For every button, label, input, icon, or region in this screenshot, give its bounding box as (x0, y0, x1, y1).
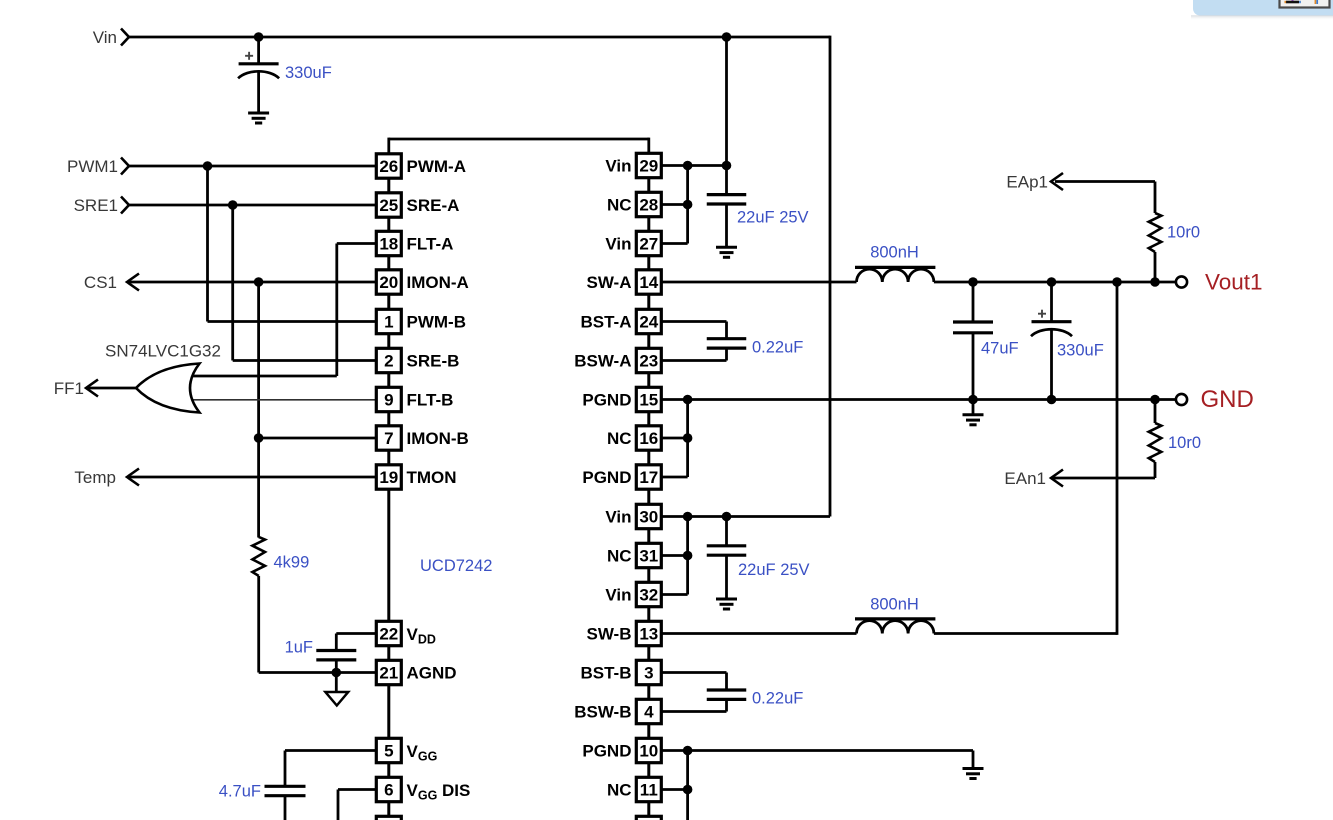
svg-text:SRE1: SRE1 (74, 196, 118, 215)
ground at PGND10 (963, 767, 984, 770)
wire right pin connector rows 9-10 (647, 529, 650, 542)
wire right pin connector rows 12-13 (647, 646, 650, 659)
svg-text:9: 9 (384, 390, 393, 409)
svg-text:VGG DIS: VGG DIS (407, 781, 471, 803)
wire VGG pin5 to 4.7uF (285, 749, 375, 752)
svg-text:30: 30 (639, 507, 658, 526)
ground below C1 (248, 112, 269, 115)
svg-text:5: 5 (384, 741, 393, 760)
port FF1 output arrow (86, 380, 98, 397)
svg-text:Vout1: Vout1 (1205, 270, 1263, 295)
svg-text:16: 16 (639, 429, 658, 448)
wire NC11 stub (662, 788, 688, 791)
pin box right 4 row14 (636, 699, 661, 723)
svg-text:PGND: PGND (582, 741, 631, 760)
svg-text:1uF: 1uF (285, 638, 313, 656)
wire BSW-A stub (662, 359, 727, 362)
wire Vin rail (129, 36, 831, 39)
pin box left 9 row6 (376, 387, 401, 411)
svg-text:23: 23 (639, 351, 658, 370)
pin box left 22 row12 (376, 621, 401, 645)
svg-text:22uF 25V: 22uF 25V (737, 208, 809, 226)
wire 330uF-1 top stub (257, 37, 260, 64)
svg-text:SW-B: SW-B (587, 624, 632, 643)
wire left pin connector rows 3-4 (387, 295, 390, 309)
wire NC31 stub (662, 554, 688, 557)
svg-text:10r0: 10r0 (1168, 434, 1201, 452)
wire 47uF bottom stub (972, 333, 975, 400)
wire LA to Vout1 (934, 281, 1176, 284)
wire PGND15 row to GND terminal (662, 398, 1176, 401)
wire AGND row (259, 671, 375, 674)
wire SRE1 branch vertical (231, 205, 234, 361)
capacitor 4.7uF at VGG (265, 785, 306, 788)
capacitor 22uF-B (707, 544, 747, 547)
svg-text:6: 6 (384, 780, 393, 799)
junction NC16 (683, 433, 693, 443)
wire 47uF ground stub (972, 400, 975, 415)
wire right pin connector rows 7-8 (647, 451, 650, 464)
svg-text:7: 7 (384, 429, 393, 448)
svg-text:SRE-A: SRE-A (407, 196, 460, 215)
wire Vin top branch drop to pin29 (725, 37, 728, 166)
pin box left partial row17 (376, 816, 401, 820)
pin box right 32 row11 (636, 582, 661, 606)
svg-text:PWM1: PWM1 (67, 157, 118, 176)
junction 47uF/GND (968, 395, 978, 405)
pin box right 27 row2 (636, 231, 661, 255)
pin box left 26 row0 (376, 154, 401, 178)
wire left pin connector rows 4-5 (387, 334, 390, 347)
svg-text:CS1: CS1 (84, 273, 117, 292)
ground below 22uF-A (716, 246, 737, 249)
pin box left 21 row13 (376, 660, 401, 684)
svg-text:32: 32 (639, 585, 658, 604)
svg-text:29: 29 (639, 156, 658, 175)
wire right pin connector rows 16-17 (647, 802, 650, 815)
wire SRE1 to pin25 (129, 204, 376, 207)
wire pins 16-17 vertical tie (686, 400, 689, 478)
svg-text:10: 10 (639, 741, 658, 760)
wire 22uF-A bottom stub to ground (725, 204, 728, 247)
wire right pin connector rows 15-16 (647, 763, 650, 776)
wire pins 31-32 vertical tie (686, 517, 689, 595)
junction 330uF-2/Vout (1047, 277, 1057, 287)
wire PGND10 row to ground (662, 749, 973, 752)
wire AGND signal-ground stub (335, 673, 338, 693)
svg-text:GND: GND (1201, 386, 1254, 413)
port Temp output arrow (127, 469, 139, 486)
capacitor C 330uF-2 polarized output (1032, 320, 1072, 323)
signal ground triangle below AGND (325, 692, 348, 706)
wire SW-B riser to Vout1 (1116, 282, 1119, 635)
junction PGND10 (683, 746, 693, 756)
wire left pin connector rows 1-2 (387, 218, 390, 231)
svg-text:FLT-A: FLT-A (407, 234, 454, 253)
junction pin29/cap (722, 161, 732, 171)
port Vin input chevron (121, 29, 129, 46)
svg-text:NC: NC (607, 546, 632, 565)
wire OR gate input 2 to FLT-B pin9 (thin) (190, 399, 375, 401)
UI button icon (1286, 1, 1299, 4)
wire BST-B stub (662, 671, 727, 674)
wire left pin connector rows 2-3 (387, 256, 390, 269)
svg-text:PGND: PGND (582, 468, 631, 487)
wire EAn1 row (1053, 477, 1155, 480)
svg-text:2: 2 (384, 351, 393, 370)
resistor 4k99 (252, 537, 265, 576)
svg-text:14: 14 (639, 273, 658, 292)
pin box right 17 row8 (636, 465, 661, 489)
wire SW-B to inductor LB (662, 632, 857, 635)
wire right pin connector rows 0-1 (647, 178, 650, 191)
junction Vin30 tie (683, 512, 693, 522)
wire R2 bottom stub (1154, 462, 1157, 478)
svg-text:28: 28 (639, 195, 658, 214)
wire left pin connector rows 12-13 (387, 646, 390, 659)
inductor LB 800nH phase B (857, 621, 934, 634)
junction CS1/IMON-A (254, 277, 264, 287)
wire right pin connector rows 11-12 (647, 607, 650, 620)
port SRE1 input chevron (121, 197, 129, 214)
wire top rail stub pin26 (387, 138, 390, 153)
wire Temp to pin19 TMON (127, 476, 375, 479)
capacitor 22uF-A (707, 193, 747, 196)
wire PGND17 stub (662, 476, 688, 479)
wire right pin connector rows 3-4 (647, 295, 650, 309)
svg-text:Vin: Vin (605, 507, 631, 526)
wire pins 10-11-12 vertical tie (686, 751, 689, 820)
wire PWM-B pin1 (208, 320, 376, 323)
svg-text:EAp1: EAp1 (1006, 173, 1048, 192)
svg-text:FF1: FF1 (54, 379, 84, 398)
wire right pin connector rows 4-5 (647, 334, 650, 347)
junction PWM1 branch (203, 161, 213, 171)
wire BST-A stub (662, 320, 727, 323)
svg-text:AGND: AGND (407, 663, 457, 682)
wire right pin connector rows 5-6 (647, 373, 650, 386)
wire 22uF-B bottom stub to ground (725, 555, 728, 599)
svg-text:25: 25 (379, 196, 398, 215)
wire top rail stub pin29 (647, 138, 650, 153)
port CS1 output arrow (127, 274, 139, 291)
wire 22uF-A top stub (725, 166, 728, 195)
capacitor 47uF output (953, 320, 993, 323)
svg-text:BSW-B: BSW-B (574, 702, 631, 721)
pin box left 20 row3 (376, 270, 401, 294)
pin box right 29 row0 (636, 153, 661, 177)
wire right pin connector rows 10-11 (647, 568, 650, 581)
svg-text:330uF: 330uF (285, 64, 332, 82)
port EAn1 output arrow (1051, 470, 1063, 487)
svg-text:Vin: Vin (605, 585, 631, 604)
svg-text:27: 27 (639, 234, 658, 253)
svg-text:BST-A: BST-A (581, 312, 632, 331)
wire 330uF-2 top stub (1050, 282, 1053, 322)
wire FF1 to OR gate output (86, 387, 140, 390)
wire VDD pin22 to 1uF (336, 632, 375, 635)
wire VGG-DIS drop (337, 790, 340, 820)
svg-text:EAn1: EAn1 (1004, 469, 1046, 488)
terminal Vout1 (1176, 276, 1187, 287)
wire right pin connector rows 13-14 (647, 685, 650, 698)
pin box right 24 row4 (636, 309, 661, 333)
wire left pin connector rows 16-17 (387, 802, 390, 815)
pin box left 19 row8 (376, 465, 401, 489)
terminal GND (1176, 394, 1187, 405)
junction PGND15 (683, 395, 693, 405)
wire left pin connector AGND to VGG (387, 685, 390, 737)
junction 47uF/Vout (968, 277, 978, 287)
wire CBST-B bottom stub (725, 699, 728, 711)
wire pins 28-27 vertical tie (686, 166, 689, 244)
junction SRE1 branch (228, 200, 238, 210)
wire NC16 stub (662, 437, 688, 440)
ground below 22uF-B (716, 598, 737, 601)
wire left pin connector rows 15-16 (387, 763, 390, 776)
wire 4.7uF top stub (284, 751, 287, 787)
wire VGG-DIS pin6 (338, 788, 375, 791)
wire CBST-A bottom stub (725, 348, 728, 360)
svg-text:SRE-B: SRE-B (407, 351, 460, 370)
pin box right 13 row12 (636, 621, 661, 645)
svg-text:FLT-B: FLT-B (407, 390, 454, 409)
port PWM1 input chevron (121, 158, 129, 175)
junction pin29 tie (683, 161, 693, 171)
pin box left 25 row1 (376, 193, 401, 217)
wire 330uF-1 bottom stub (257, 73, 260, 114)
wire LB to riser (934, 632, 1117, 635)
svg-text:PWM-B: PWM-B (407, 312, 466, 331)
wire IMON vertical (257, 282, 260, 538)
svg-text:Vin: Vin (605, 234, 631, 253)
svg-text:4k99: 4k99 (274, 553, 310, 571)
svg-text:22: 22 (379, 624, 398, 643)
pin box left 2 row5 (376, 348, 401, 372)
svg-text:31: 31 (639, 546, 658, 565)
junction Vin/330uF (254, 32, 264, 42)
wire 1uF bottom stub (335, 660, 338, 673)
junction R1/Vout (1150, 277, 1160, 287)
wire Vin32 stub (662, 593, 688, 596)
wire Vin30 row to drop (662, 515, 830, 518)
junction NC28 (683, 200, 693, 210)
junction 1uF/AGND (332, 668, 342, 678)
wire right pin connector rows 1-2 (647, 217, 650, 230)
wire CBST-B top stub (725, 673, 728, 691)
pin box right 3 row13 (636, 660, 661, 684)
wire left pin connector rows 7-8 (387, 451, 390, 464)
svg-text:IMON-B: IMON-B (407, 429, 469, 448)
UI toolbar panel top-right (1193, 0, 1333, 16)
wire left pin connector TMON to VDD (387, 490, 390, 621)
pin box right 16 row7 (636, 426, 661, 450)
svg-text:22uF 25V: 22uF 25V (738, 561, 810, 579)
pin box right 28 row1 (636, 192, 661, 216)
wire pin27 stub (662, 242, 688, 245)
pin box right 10 row15 (636, 738, 661, 762)
inductor LA 800nH phase A (857, 269, 934, 282)
pin box left 6 row16 (376, 777, 401, 801)
wire 22uF-B top stub (725, 517, 728, 546)
pin box right 14 row3 (636, 270, 661, 294)
capacitor 1uF at VDD (316, 649, 356, 652)
wire R1 bottom stub (1154, 252, 1157, 282)
UI button (1280, 0, 1330, 8)
pin box left 7 row7 (376, 426, 401, 450)
svg-text:TMON: TMON (407, 468, 457, 487)
svg-text:3: 3 (644, 663, 653, 682)
svg-text:20: 20 (379, 273, 398, 292)
svg-text:NC: NC (607, 780, 632, 799)
svg-text:PWM-A: PWM-A (407, 157, 466, 176)
port EAp1 output arrow (1051, 173, 1063, 190)
svg-text:800nH: 800nH (870, 243, 919, 261)
pin box left 5 row15 (376, 738, 401, 762)
resistor R2 10r0 EAn1 (1149, 423, 1162, 462)
wire right pin connector rows 6-7 (647, 412, 650, 425)
wire 47uF top stub (972, 282, 975, 322)
svg-text:0.22uF: 0.22uF (752, 338, 803, 356)
svg-text:UCD7242: UCD7242 (420, 557, 492, 575)
ground below 47uF (963, 413, 984, 416)
svg-text:SN74LVC1G32: SN74LVC1G32 (105, 342, 221, 361)
junction IMON-B (254, 433, 264, 443)
wire R1 top stub (1154, 182, 1157, 214)
svg-text:0.22uF: 0.22uF (752, 689, 803, 707)
wire FLT-A pin18 (337, 242, 375, 245)
pin box right 23 row5 (636, 348, 661, 372)
junction NC31 (683, 551, 693, 561)
svg-text:Temp: Temp (74, 468, 116, 487)
pin box left 1 row4 (376, 309, 401, 333)
svg-text:NC: NC (607, 429, 632, 448)
wire pin28 NC stub (662, 203, 688, 206)
junction Vin/22uF-A (722, 32, 732, 42)
svg-text:15: 15 (639, 390, 658, 409)
wire EAp1 row (1055, 180, 1155, 183)
svg-text:11: 11 (640, 780, 658, 799)
svg-text:13: 13 (639, 624, 658, 643)
wire R2 top stub (1154, 400, 1157, 424)
wire 4k99 bottom to AGND (257, 576, 260, 673)
wire 4.7uF bottom exit (284, 796, 287, 820)
pin box right partial row17 (636, 816, 661, 820)
pin box right 31 row10 (636, 543, 661, 567)
wire PWM1 to pin26 (129, 165, 376, 168)
svg-text:4: 4 (644, 702, 654, 721)
svg-text:IMON-A: IMON-A (407, 273, 469, 292)
wire PWM1 branch vertical (206, 166, 209, 322)
wire PGND10 ground stub (972, 751, 975, 769)
junction NC11 (683, 785, 693, 795)
capacitor CBST-A 0.22uF (707, 337, 747, 340)
wire CS1 to pin20 IMON-A (127, 281, 375, 284)
wire BSW-B stub (662, 710, 727, 713)
wire right pin connector rows 2-3 (647, 256, 650, 269)
wire left pin connector rows 5-6 (387, 373, 390, 386)
wire top rail pin26 to pin29 (389, 138, 649, 141)
wire Vin right drop to Vin pins (829, 36, 832, 517)
junction SW-B riser/Vout (1112, 277, 1122, 287)
capacitor CBST-B 0.22uF (707, 688, 747, 691)
capacitor C1 330uF polarized at Vin (239, 62, 279, 65)
svg-text:47uF: 47uF (981, 339, 1019, 357)
svg-text:17: 17 (639, 468, 658, 487)
junction 330uF-2/GND (1047, 395, 1057, 405)
junction Vin30/22uF-B (722, 512, 732, 522)
svg-text:PGND: PGND (582, 390, 631, 409)
op-amp U2 OR gate SN74LVC1G32 (mirrored) (136, 364, 200, 413)
pin box left 18 row2 (376, 231, 401, 255)
wire IMON-B pin7 (259, 437, 375, 440)
wire CBST-A top stub (725, 322, 728, 339)
svg-text:1: 1 (384, 312, 393, 331)
wire right pin connector rows 8-9 (647, 490, 650, 504)
wire SW-A to inductor LA (662, 281, 857, 284)
svg-text:10r0: 10r0 (1167, 223, 1200, 241)
wire right pin connector rows 14-15 (647, 724, 650, 737)
svg-text:330uF: 330uF (1057, 341, 1104, 359)
svg-text:BSW-A: BSW-A (574, 351, 631, 370)
pin box right 30 row9 (636, 504, 661, 528)
wire pin29 row (662, 164, 727, 167)
wire 1uF top stub (335, 634, 338, 651)
svg-text:Vin: Vin (605, 156, 631, 175)
wire 330uF-2 bottom stub (1050, 329, 1053, 400)
pin box right 15 row6 (636, 387, 661, 411)
svg-text:4.7uF: 4.7uF (219, 782, 261, 800)
svg-text:18: 18 (379, 234, 398, 253)
svg-text:21: 21 (379, 663, 398, 682)
svg-text:Vin: Vin (93, 28, 117, 47)
svg-text:BST-B: BST-B (581, 663, 632, 682)
svg-text:800nH: 800nH (870, 595, 919, 613)
svg-text:24: 24 (639, 312, 658, 331)
svg-text:19: 19 (379, 468, 398, 487)
wire SRE-B pin2 (233, 359, 375, 362)
wire left pin connector rows 0-1 (387, 179, 390, 192)
wire FLT-A vertical to OR gate (335, 244, 338, 377)
svg-text:NC: NC (607, 195, 632, 214)
pin box right 11 row16 (636, 777, 661, 801)
svg-text:SW-A: SW-A (587, 273, 632, 292)
resistor R1 10r0 EAp1 (1149, 213, 1162, 252)
wire OR gate input 1 (190, 375, 337, 378)
svg-text:26: 26 (379, 157, 398, 176)
wire left pin connector rows 6-7 (387, 412, 390, 425)
junction R2/GND (1150, 395, 1160, 405)
